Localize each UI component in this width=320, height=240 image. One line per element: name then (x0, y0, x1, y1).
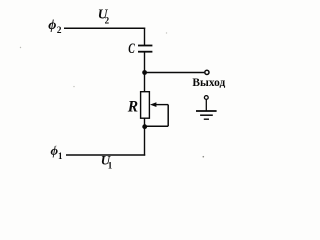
wiper wire horizontal to node B (145, 125, 168, 127)
ground bar 3 (204, 118, 209, 120)
wire bottom horizontal U1 (66, 154, 145, 156)
wire resistor bottom through node B (144, 118, 146, 156)
scan speck (73, 86, 74, 87)
capacitor C1 top plate (138, 45, 152, 47)
svg-text:C: C (128, 40, 135, 56)
svg-text:2: 2 (57, 26, 62, 36)
wire top horizontal U2 (64, 27, 145, 29)
ground bar 2 (200, 114, 213, 116)
node B junction dot (142, 124, 147, 129)
wiper arrow line (155, 104, 169, 106)
svg-text:1: 1 (58, 151, 63, 161)
svg-text:1: 1 (108, 161, 113, 171)
svg-text:2: 2 (105, 15, 110, 25)
capacitor C1 bottom plate (138, 51, 152, 53)
ground terminal circle (204, 96, 208, 100)
wire capacitor to node A (144, 52, 146, 73)
scan speck (203, 156, 205, 158)
wire node A to resistor (144, 73, 146, 93)
wire output horizontal (145, 72, 205, 74)
scan speck (55, 145, 56, 146)
scan speck (166, 32, 167, 33)
svg-text:R: R (127, 98, 138, 115)
ground lead wire (205, 99, 207, 111)
node A junction dot (142, 70, 147, 75)
wiper arrow head (150, 102, 156, 107)
svg-text:ϕ: ϕ (48, 18, 56, 33)
ground bar 1 (196, 110, 217, 112)
wire vertical to capacitor (144, 28, 146, 46)
resistor R body (141, 92, 150, 119)
svg-text:Выход: Выход (192, 77, 225, 89)
scan speck (20, 47, 21, 48)
wiper wire vertical (167, 105, 169, 127)
output terminal circle (205, 70, 209, 74)
